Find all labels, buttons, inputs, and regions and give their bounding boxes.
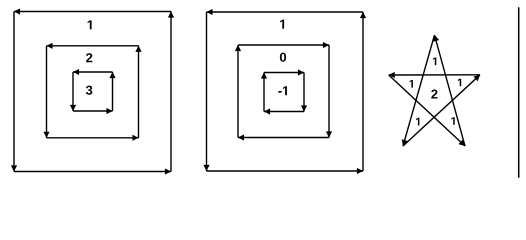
label 1 figure 2 <box>280 20 284 29</box>
square A middle: left edge <box>46 46 48 138</box>
square B outer: top edge <box>207 11 364 13</box>
square A outer: right edge <box>170 12 172 172</box>
star label 1 bottom-right point <box>451 117 454 125</box>
star label 1 right point <box>458 79 461 87</box>
square A outer: left edge <box>13 12 15 172</box>
star: segment BR to T <box>435 35 466 146</box>
star label 1 top point <box>433 58 436 66</box>
star: segment R to L <box>389 74 480 76</box>
square A outer: top edge <box>14 11 171 13</box>
label -1 figure 2 <box>278 86 287 95</box>
label 1 figure 1 <box>88 20 92 29</box>
star: segment L to BR <box>389 75 465 146</box>
square A middle: right edge <box>138 46 140 138</box>
square B middle: right edge <box>328 45 330 138</box>
star: segment BL to R <box>403 75 480 146</box>
star: segment T to BL <box>403 35 435 146</box>
square B middle: left edge <box>237 45 239 138</box>
star label 1 bottom-left point <box>416 118 419 126</box>
square A inner: left edge <box>72 72 74 111</box>
label 0 figure 2 <box>280 53 286 62</box>
label 2 figure 1 <box>86 53 92 62</box>
square A inner: right edge <box>112 72 114 111</box>
square A inner: bottom edge <box>73 110 113 112</box>
square B outer: left edge <box>206 12 208 171</box>
square B inner: right edge <box>303 73 305 112</box>
square A outer: bottom edge <box>14 171 171 173</box>
square B inner (clockwise): top edge <box>264 72 304 74</box>
square B middle: bottom edge <box>238 137 329 139</box>
star label 2 center <box>431 90 437 99</box>
square A middle: top edge <box>47 45 139 47</box>
label 3 figure 1 <box>86 86 92 95</box>
square B inner: bottom edge <box>264 111 304 113</box>
vertical rule at right <box>518 7 520 178</box>
square B middle (clockwise): top edge <box>238 44 329 46</box>
square A inner: top edge <box>73 71 113 73</box>
square B outer: right edge <box>362 12 364 171</box>
star label 1 left point <box>410 80 413 88</box>
square A middle: bottom edge <box>47 137 139 139</box>
square B outer: bottom edge <box>207 170 364 172</box>
square B inner: left edge <box>263 73 265 112</box>
